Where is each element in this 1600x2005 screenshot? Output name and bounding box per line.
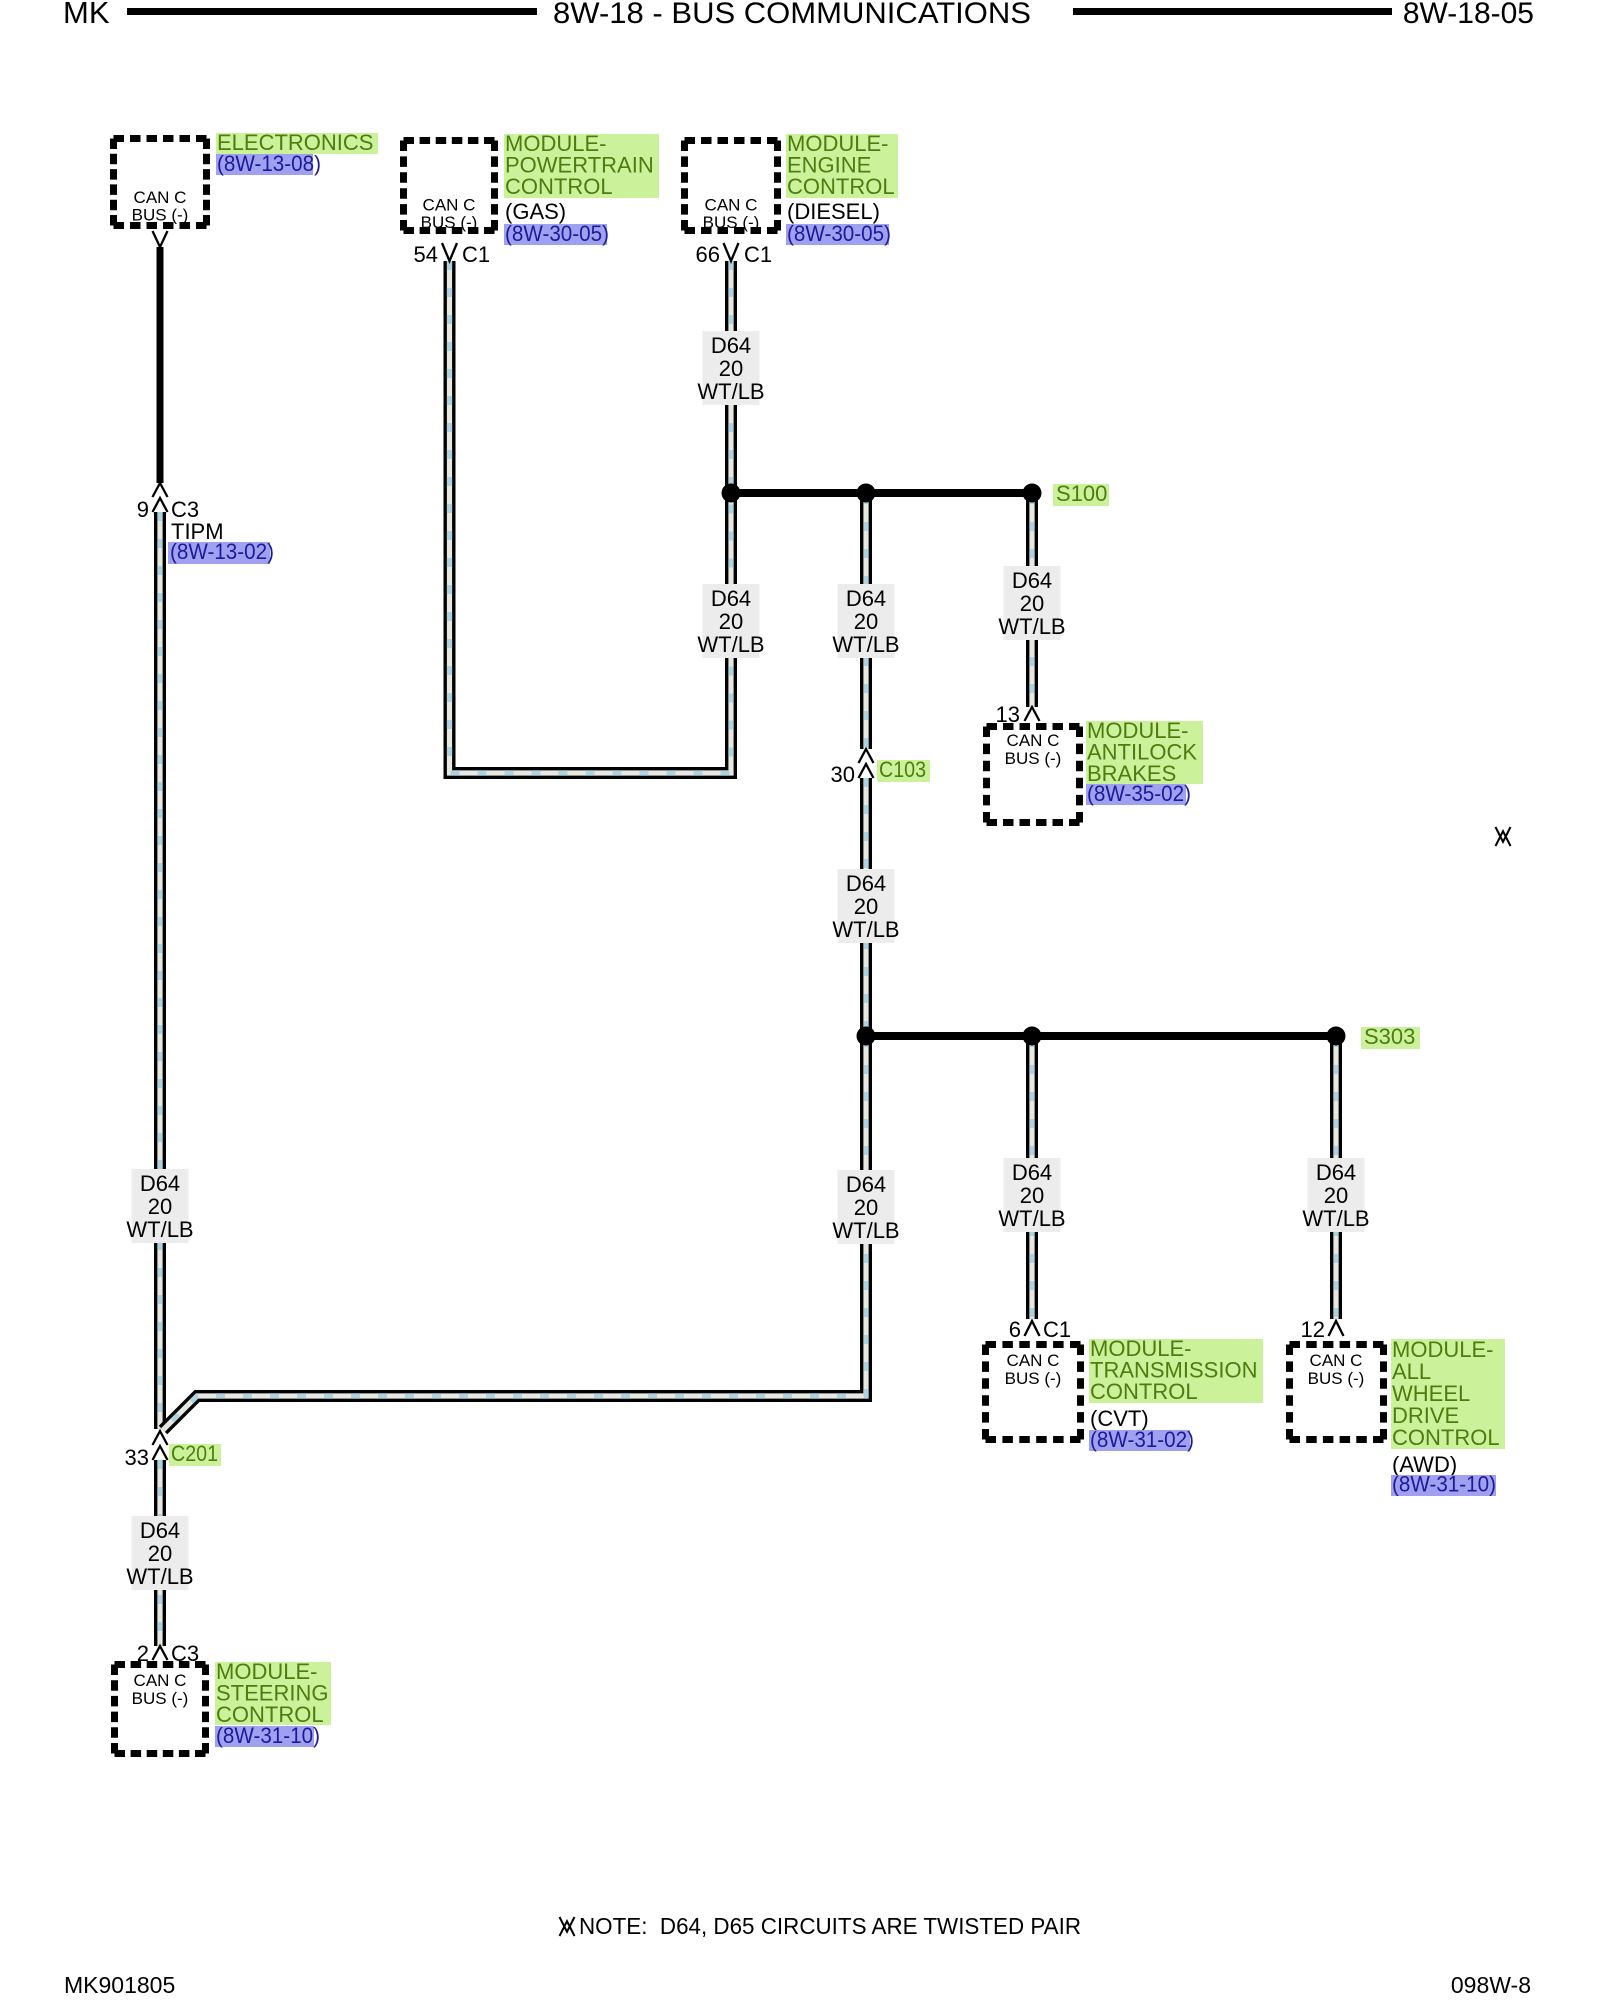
svg-text:CAN C: CAN C: [1310, 1351, 1363, 1370]
svg-text:CAN C: CAN C: [423, 196, 476, 215]
svg-text:S100: S100: [1056, 481, 1107, 506]
wire D64 twisted pair: C103 down to S303: [860, 778, 872, 1034]
module label ELECTRONICS: [216, 133, 378, 154]
svg-text:20: 20: [854, 609, 878, 634]
svg-text:C1: C1: [1043, 1317, 1071, 1342]
wire D64 twisted pair: S100 down to ABS module pin 13: [1026, 495, 1038, 707]
module POWERTRAIN CONTROL connector box: [404, 141, 495, 231]
svg-text:WT/LB: WT/LB: [832, 917, 899, 942]
wire label D64 20 WT/LB (S303 to TCM): [1004, 1158, 1061, 1232]
svg-text:66: 66: [696, 242, 720, 267]
module label MODULE-ENGINE CONTROL (DIESEL): [786, 134, 898, 198]
svg-text:WT/LB: WT/LB: [998, 614, 1065, 639]
svg-text:30: 30: [831, 762, 855, 787]
svg-text:(8W-31-02): (8W-31-02): [1090, 1427, 1194, 1452]
module ENGINE CONTROL connector box: [685, 141, 778, 231]
wire D64 twisted pair: S303 down to TCM pin 6: [1026, 1038, 1038, 1319]
svg-text:D64: D64: [140, 1171, 180, 1196]
svg-text:(8W-30-05): (8W-30-05): [505, 221, 609, 246]
svg-text:C1: C1: [744, 242, 772, 267]
wire D64 twisted pair: S303 left leg down, left, diagonal to C201: [163, 1038, 866, 1430]
module label MODULE-STEERING CONTROL: [215, 1662, 331, 1725]
reference label (8W-30-05) diesel: [786, 224, 889, 245]
svg-text:(8W-13-08): (8W-13-08): [217, 151, 321, 176]
module ELECTRONICS connector box: [114, 139, 207, 226]
svg-text:20: 20: [1020, 591, 1044, 616]
svg-text:WT/LB: WT/LB: [832, 1218, 899, 1243]
svg-text:BUS (-): BUS (-): [1308, 1369, 1365, 1388]
svg-text:8W-18 - BUS COMMUNICATIONS: 8W-18 - BUS COMMUNICATIONS: [553, 0, 1031, 30]
wire D64 twisted pair: S303 down to AWD pin 12: [1330, 1038, 1342, 1319]
svg-text:CONTROL: CONTROL: [1090, 1379, 1198, 1404]
svg-text:BUS (-): BUS (-): [421, 213, 478, 232]
svg-text:20: 20: [854, 1195, 878, 1220]
wire label D64 20 WT/LB (C201 to steering): [132, 1516, 189, 1590]
svg-text:D64: D64: [1012, 1160, 1052, 1185]
wire D64 twisted pair: PCM C1 down, right, up to S100: [450, 261, 732, 773]
svg-text:54: 54: [414, 242, 438, 267]
svg-text:C1: C1: [462, 242, 490, 267]
wire D64 twisted pair: ECM C1 down to S100: [725, 261, 737, 491]
junction dot S100 right: [1023, 484, 1042, 503]
module label MODULE-ALL WHEEL DRIVE CONTROL (AWD): [1391, 1339, 1505, 1449]
splice S303 bus bar: [866, 1032, 1336, 1040]
svg-text:CAN C: CAN C: [705, 196, 758, 215]
module label MODULE-ANTILOCK BRAKES: [1086, 721, 1203, 784]
wire D64 twisted pair: C201 down to steering module pin 2: [154, 1460, 166, 1646]
svg-text:20: 20: [148, 1541, 172, 1566]
svg-text:D64: D64: [1012, 568, 1052, 593]
svg-text:CAN C: CAN C: [134, 1671, 187, 1690]
svg-text:(8W-31-10): (8W-31-10): [216, 1723, 320, 1748]
svg-text:D64: D64: [846, 871, 886, 896]
wire label D64 20 WT/LB (PCM riser): [703, 584, 760, 658]
wire label D64 20 WT/LB (S303 left leg): [838, 1170, 895, 1244]
svg-text:S303: S303: [1364, 1024, 1415, 1049]
module label MODULE-POWERTRAIN CONTROL (GAS): [504, 134, 659, 198]
svg-text:CAN C: CAN C: [1007, 1351, 1060, 1370]
svg-text:WT/LB: WT/LB: [998, 1206, 1065, 1231]
junction dot S100 left: [722, 484, 741, 503]
svg-text:20: 20: [1020, 1183, 1044, 1208]
svg-text:NOTE: D64, D65 CIRCUITS ARE T: NOTE: D64, D65 CIRCUITS ARE TWISTED PAIR: [579, 1913, 1081, 1939]
svg-text:(8W-30-05): (8W-30-05): [787, 221, 891, 246]
reference label (8W-31-10) awd: [1391, 1475, 1496, 1496]
svg-text:WT/LB: WT/LB: [697, 379, 764, 404]
svg-text:BUS (-): BUS (-): [1005, 749, 1062, 768]
splice label S100: [1053, 484, 1109, 506]
svg-text:D64: D64: [711, 586, 751, 611]
note reference mark: [560, 1917, 575, 1932]
svg-text:WT/LB: WT/LB: [1302, 1206, 1369, 1231]
svg-text:CONTROL: CONTROL: [787, 174, 895, 199]
svg-text:(8W-31-10): (8W-31-10): [1392, 1472, 1496, 1497]
wire label D64 20 WT/LB (ECM drop): [703, 331, 760, 405]
module STEERING CONTROL connector box: [115, 1665, 206, 1754]
pin 12 connector at AWD module: [1329, 1321, 1344, 1336]
junction dot S303 left: [857, 1027, 876, 1046]
wire label D64 20 WT/LB (S100 to ABS): [1004, 566, 1061, 640]
svg-text:BUS (-): BUS (-): [703, 213, 760, 232]
wire D64 twisted pair: C3 TIPM down to C201: [154, 512, 166, 1429]
svg-text:CONTROL: CONTROL: [505, 174, 613, 199]
svg-text:D64: D64: [711, 333, 751, 358]
splice S100 bus bar: [731, 489, 1032, 497]
connector chevron below electronics box: [153, 231, 168, 247]
svg-text:33: 33: [125, 1445, 149, 1470]
svg-text:WT/LB: WT/LB: [126, 1564, 193, 1589]
svg-text:12: 12: [1301, 1317, 1325, 1342]
inline connector 33 C201: [153, 1431, 168, 1445]
reference label (8W-13-02): [168, 542, 270, 564]
reference label (8W-13-08): [216, 154, 313, 175]
reference mark right margin: [1496, 827, 1511, 842]
svg-text:20: 20: [1324, 1183, 1348, 1208]
splice label S303: [1361, 1027, 1420, 1049]
svg-text:20: 20: [719, 356, 743, 381]
junction dot S303 right: [1327, 1027, 1346, 1046]
svg-text:BUS (-): BUS (-): [1005, 1369, 1062, 1388]
svg-text:(8W-13-02): (8W-13-02): [170, 539, 274, 564]
svg-text:WT/LB: WT/LB: [126, 1217, 193, 1242]
pin 13 connector at ABS module: [1025, 707, 1040, 721]
svg-text:C103: C103: [879, 757, 926, 782]
svg-text:D64: D64: [1316, 1160, 1356, 1185]
svg-text:MK901805: MK901805: [64, 1972, 175, 1998]
svg-text:CAN C: CAN C: [134, 188, 187, 207]
svg-text:9: 9: [137, 497, 149, 522]
svg-text:(8W-35-02): (8W-35-02): [1087, 781, 1191, 806]
inline connector 30 C103: [859, 749, 874, 763]
header rule left: [127, 8, 537, 15]
svg-text:20: 20: [854, 894, 878, 919]
svg-text:D64: D64: [140, 1518, 180, 1543]
svg-text:C201: C201: [171, 1441, 218, 1466]
svg-text:20: 20: [719, 609, 743, 634]
header rule right: [1073, 8, 1392, 15]
pin 6 C1 connector at transmission module: [1025, 1321, 1040, 1336]
wire solid: electronics module to C3 connector: [157, 247, 164, 483]
pin 2 C3 connector at steering module: [153, 1646, 168, 1660]
junction dot S100 middle: [857, 484, 876, 503]
module ALL WHEEL DRIVE CONTROL connector box: [1290, 1345, 1384, 1440]
pin 66 C1 connector at ECM: [724, 243, 739, 261]
module ANTILOCK BRAKES connector box: [987, 727, 1080, 823]
svg-text:D64: D64: [846, 586, 886, 611]
svg-text:MK: MK: [63, 0, 110, 30]
wire label D64 20 WT/LB (S100 to C103): [838, 584, 895, 658]
svg-text:6: 6: [1009, 1317, 1021, 1342]
svg-text:20: 20: [148, 1194, 172, 1219]
inline connector 9 C3 TIPM: [153, 483, 168, 497]
svg-text:BUS (-): BUS (-): [132, 206, 189, 225]
wire label D64 20 WT/LB (TIPM to C201): [132, 1169, 189, 1243]
svg-text:WT/LB: WT/LB: [697, 632, 764, 657]
svg-text:CAN C: CAN C: [1007, 731, 1060, 750]
svg-text:098W-8: 098W-8: [1451, 1972, 1531, 1998]
wire label D64 20 WT/LB (C103 to S303): [838, 869, 895, 943]
wire label D64 20 WT/LB (S303 to AWD): [1308, 1158, 1365, 1232]
pin 54 C1 connector at PCM: [442, 243, 457, 261]
wire D64 twisted pair: S100 down to C103: [860, 495, 872, 749]
reference label (8W-31-10) steering: [215, 1726, 314, 1747]
svg-text:WT/LB: WT/LB: [832, 632, 899, 657]
module TRANSMISSION CONTROL connector box: [986, 1345, 1081, 1440]
svg-text:CONTROL: CONTROL: [1392, 1425, 1500, 1450]
svg-text:BUS (-): BUS (-): [132, 1689, 189, 1708]
reference label (8W-30-05) gas: [504, 224, 607, 245]
svg-text:8W-18-05: 8W-18-05: [1403, 0, 1534, 30]
module label MODULE-TRANSMISSION CONTROL (CVT): [1089, 1339, 1263, 1403]
reference label (8W-35-02): [1086, 784, 1186, 805]
junction dot S303 middle: [1023, 1027, 1042, 1046]
reference label (8W-31-02): [1089, 1430, 1190, 1451]
svg-text:D64: D64: [846, 1172, 886, 1197]
